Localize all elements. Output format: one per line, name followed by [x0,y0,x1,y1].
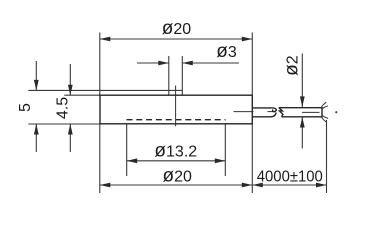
svg-text:ø20: ø20 [162,166,192,187]
svg-text:ø20: ø20 [162,18,192,39]
svg-text:ø13.2: ø13.2 [154,141,197,162]
svg-text:ø2: ø2 [282,55,303,76]
svg-text:4000±100: 4000±100 [257,168,323,186]
svg-text:ø3: ø3 [216,41,237,62]
svg-text:4.5: 4.5 [55,97,72,119]
svg-text:5: 5 [17,103,34,112]
